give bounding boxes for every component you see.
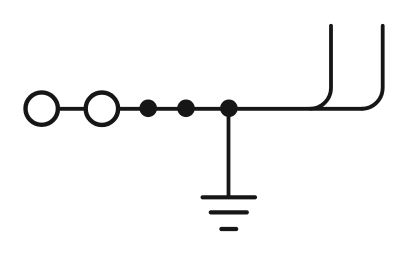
ground (protective earth) bar 2: [211, 210, 247, 214]
ground (protective earth) bar 3: [221, 227, 236, 231]
wire: contact 2 to internal bus: [118, 107, 363, 111]
wire: vertical drop from node 3 to earth symbol: [227, 109, 231, 196]
wire: contact 1 to contact 2: [58, 107, 86, 111]
junction node 2: [177, 100, 195, 118]
ground (protective earth) bar 1: [203, 195, 255, 199]
terminal clamp contact 2 (second connection circle): [86, 93, 118, 125]
junction node 1: [139, 100, 157, 118]
junction node 3 (tap to protective earth): [220, 100, 238, 118]
wire: branch conductor 2 curving up to top edge: [362, 26, 383, 109]
terminal clamp contact 1 (left screw/spring connection circle): [26, 92, 58, 124]
wire: branch conductor 1 curving up to top edge: [310, 26, 331, 109]
